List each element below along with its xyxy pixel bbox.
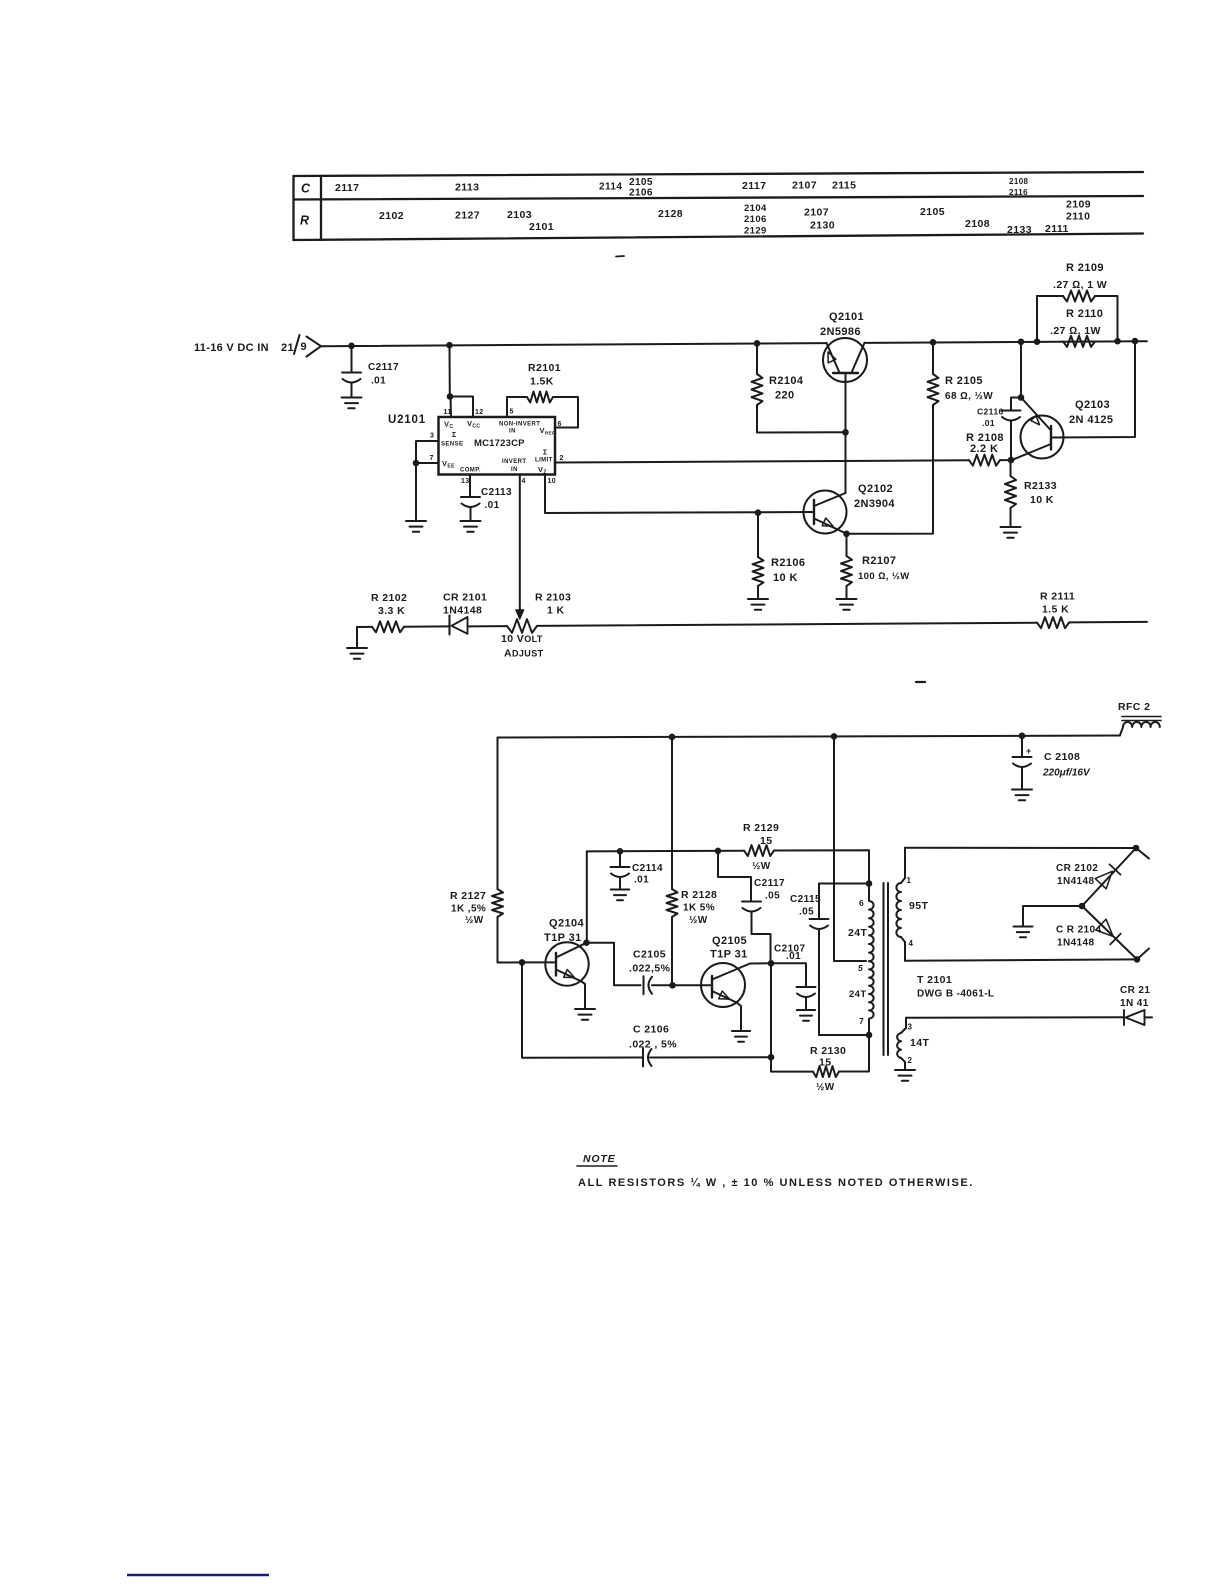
transformer T2101 primary winding upper 24T — [869, 884, 874, 962]
wire R2101 to U2101 pin6 — [553, 397, 578, 428]
svg-text:R 2110: R 2110 — [1066, 308, 1103, 320]
wire rail to R2104 — [756, 343, 758, 374]
resistor R2129 — [744, 845, 774, 856]
transistor Q2103 2N4125 — [1021, 416, 1064, 459]
wire Q2102 emitter to R2107 — [846, 534, 848, 556]
wire rail to Q2103 emitter node — [1020, 342, 1022, 398]
svg-text:C2113: C2113 — [481, 487, 512, 498]
junction input rail at U2101 branch — [446, 342, 453, 349]
svg-text:.01: .01 — [786, 951, 801, 962]
capacitor C2114 — [611, 866, 630, 868]
svg-text:2105: 2105 — [920, 206, 945, 218]
svg-text:95T: 95T — [909, 900, 928, 912]
wire C2115 top stem — [818, 884, 820, 920]
svg-text:½W: ½W — [465, 915, 484, 926]
svg-text:1 K: 1 K — [547, 605, 565, 617]
junction Q2105 collector node — [768, 960, 775, 967]
svg-text:2107: 2107 — [792, 180, 817, 192]
junction rectifier bottom node — [1134, 956, 1141, 963]
wire R2129 to winding node — [774, 850, 869, 883]
svg-text:NON-INVERT: NON-INVERT — [499, 422, 540, 428]
wire U2101 pin11 stub — [450, 397, 453, 418]
svg-text:2107: 2107 — [804, 207, 829, 219]
wire rail to R2105 — [932, 342, 934, 374]
svg-text:Σ: Σ — [452, 432, 457, 439]
svg-text:2113: 2113 — [455, 182, 479, 194]
wire pin1 output line — [905, 847, 1136, 849]
junction input rail at Q2103 emitter branch — [1018, 338, 1025, 345]
svg-text:2106: 2106 — [629, 188, 653, 199]
wire rail to R2109 left — [1036, 296, 1038, 342]
wire winding node bottom line — [819, 1034, 869, 1036]
wire R2103 to R2111 long run — [537, 623, 1037, 626]
ground U2101 pin7 — [406, 520, 426, 522]
svg-text:.27 Ω, 1W: .27 Ω, 1W — [1050, 325, 1101, 337]
resistor R2127 — [492, 889, 503, 917]
capacitor C2105 — [643, 976, 645, 994]
stray mark below table — [616, 255, 624, 258]
junction rectifier center node — [1079, 903, 1086, 910]
junction input rail at Q2103 base branch — [1132, 338, 1139, 345]
resistor R2108 — [969, 455, 1000, 466]
svg-text:C2117: C2117 — [754, 878, 785, 889]
diode CR2102 — [1082, 848, 1136, 906]
junction input rail at R2109 right — [1114, 338, 1121, 345]
svg-text:R 2111: R 2111 — [1040, 591, 1075, 603]
svg-text:7: 7 — [859, 1016, 864, 1026]
junction input rail at R2104 — [754, 340, 761, 347]
svg-text:Q2105: Q2105 — [712, 935, 747, 947]
svg-text:13: 13 — [461, 478, 470, 485]
svg-text:2117: 2117 — [335, 182, 359, 194]
svg-text:RFC 2: RFC 2 — [1118, 701, 1150, 713]
wire Q2105 node riser to bottom — [770, 963, 772, 1057]
resistor R2128 — [667, 889, 678, 917]
resistor R2104 — [752, 374, 763, 405]
wire C2106 to Q2104 base node — [522, 962, 643, 1057]
wire C2115 bottom stem — [818, 929, 820, 1035]
svg-text:ADJUST: ADJUST — [504, 648, 544, 660]
svg-text:1K 5%: 1K 5% — [683, 903, 715, 914]
wire Q2105 emitter to ground — [737, 1003, 742, 1032]
svg-text:.01: .01 — [982, 418, 995, 428]
junction collector line at C2114 — [617, 848, 624, 855]
svg-text:Q2101: Q2101 — [829, 311, 864, 323]
svg-text:.022 , 5%: .022 , 5% — [629, 1039, 677, 1051]
ground Q2104 emitter — [575, 1008, 595, 1010]
svg-text:C2116: C2116 — [977, 407, 1004, 417]
wire R2105 to Q2102 emitter node — [847, 405, 934, 534]
wire C2108 stem — [1021, 735, 1023, 757]
wire node to C2107 — [771, 963, 806, 987]
svg-text:C: C — [301, 182, 311, 196]
svg-text:R: R — [300, 214, 309, 228]
svg-text:LIMIT: LIMIT — [535, 458, 553, 464]
svg-text:R 2129: R 2129 — [743, 822, 779, 834]
resistor R2130 — [813, 1066, 839, 1077]
wire rectifier top stub to edge — [1136, 848, 1149, 859]
svg-text:1.5K: 1.5K — [530, 376, 554, 388]
wire lower rail to R2128 — [671, 737, 673, 889]
wire C2108 to ground — [1021, 767, 1023, 790]
wire lower rail to R2127 — [497, 738, 499, 890]
wire Q2104 base lead — [522, 961, 556, 963]
ground R2106 — [748, 598, 768, 600]
svg-text:C 2106: C 2106 — [633, 1024, 669, 1036]
wire Q2104 emitter to ground — [582, 982, 586, 1010]
transistor Q2104 TIP31 — [545, 942, 588, 985]
svg-text:5: 5 — [510, 409, 514, 416]
ground R2133 — [1001, 526, 1021, 528]
svg-text:MC1723CP: MC1723CP — [474, 438, 525, 449]
svg-text:T1P 31: T1P 31 — [710, 949, 748, 961]
wire CR2101 to R2103 — [469, 625, 507, 627]
ground R2107 — [837, 598, 857, 600]
junction input rail at R2105 — [930, 339, 937, 346]
svg-text:C 2108: C 2108 — [1044, 751, 1080, 763]
ground C2117 — [342, 397, 362, 399]
wire U2101 pin10 to Q2102 base — [545, 475, 814, 514]
svg-text:2N5986: 2N5986 — [820, 326, 861, 338]
svg-text:4: 4 — [522, 478, 526, 485]
ground C2108 — [1012, 789, 1032, 791]
wire U2101 pin2 to R2108 — [555, 460, 969, 462]
ground Q2105 emitter — [732, 1030, 750, 1032]
svg-text:1N4148: 1N4148 — [443, 605, 482, 617]
wire ground to R2102 — [356, 627, 358, 648]
svg-text:1N4148: 1N4148 — [1057, 938, 1094, 949]
svg-text:CR 2102: CR 2102 — [1056, 863, 1098, 874]
wire C2116 to current-limit node — [1010, 421, 1012, 461]
svg-text:2111: 2111 — [1045, 223, 1069, 235]
svg-text:R2104: R2104 — [769, 375, 804, 387]
wire R2130 to winding pin7 node — [839, 1035, 869, 1072]
wire C2114 stem — [619, 851, 621, 867]
svg-text:R2133: R2133 — [1024, 480, 1057, 492]
wire C2114 to ground — [619, 877, 621, 890]
wire R2108 to current-limit node — [1000, 459, 1011, 461]
svg-text:CR 2101: CR 2101 — [443, 592, 487, 604]
wire pin4 output line — [905, 959, 1137, 960]
svg-text:C2114: C2114 — [632, 863, 663, 874]
wire lower supply rail — [498, 736, 1121, 738]
svg-text:R 2130: R 2130 — [810, 1045, 846, 1057]
wire R2104 to Q2101 base node — [757, 405, 846, 433]
junction lower rail at R2128 — [669, 734, 676, 741]
svg-text:14T: 14T — [910, 1037, 929, 1049]
wire Q2104 collector to C2105 — [587, 943, 641, 986]
transformer T2101 primary winding lower 24T — [869, 961, 874, 1035]
svg-text:R2107: R2107 — [862, 555, 896, 567]
capacitor C2107 — [797, 986, 816, 988]
resistor R2106 — [753, 557, 764, 586]
op-amp U2101 MC1723CP body — [439, 417, 556, 475]
svg-text:2108: 2108 — [965, 218, 990, 230]
resistor R2110 — [1063, 336, 1095, 347]
wire R2109 right to rail — [1095, 296, 1118, 341]
svg-text:½W: ½W — [689, 915, 708, 926]
wire Q2101 base stem — [845, 373, 847, 493]
svg-text:R 2127: R 2127 — [450, 890, 486, 902]
wire U2101 pin3 stub — [416, 441, 439, 463]
svg-text:2114: 2114 — [599, 182, 622, 193]
ground C2107 — [797, 1009, 815, 1011]
junction Q2104 collector node — [583, 939, 590, 946]
wire Q2104 collector line — [587, 850, 744, 853]
junction Q2102 emitter node — [843, 531, 850, 538]
svg-text:7: 7 — [430, 455, 434, 462]
svg-text:1N4148: 1N4148 — [1057, 876, 1094, 887]
svg-text:12: 12 — [475, 409, 484, 416]
svg-text:10: 10 — [548, 478, 557, 485]
resistor R2107 — [841, 556, 852, 586]
svg-text:2103: 2103 — [507, 209, 532, 221]
wire rectifier bottom stub to edge — [1137, 949, 1149, 960]
svg-text:2: 2 — [560, 455, 564, 462]
resistor R2101 — [527, 392, 553, 403]
resistor R2102 — [372, 621, 404, 632]
svg-text:2117: 2117 — [742, 180, 766, 192]
svg-text:DWG B -4061-L: DWG B -4061-L — [917, 989, 994, 1000]
wire rail to U2101 pins 11/12 — [449, 345, 451, 396]
resistor R2105 — [928, 374, 939, 405]
wire U2101 pin4 to R2103 wiper — [519, 475, 521, 614]
wire U2101 pin12 loop — [450, 397, 473, 418]
capacitor C2115 — [810, 918, 829, 920]
capacitor C2108 — [1013, 756, 1032, 758]
wire U2101 pin5 to R2101 — [507, 397, 527, 417]
wire C2117 stem — [351, 346, 353, 373]
svg-text:R 2105: R 2105 — [945, 375, 983, 387]
ground C2113 — [461, 520, 481, 522]
svg-text:C2105: C2105 — [633, 949, 666, 961]
decorative blue underline — [127, 1574, 269, 1577]
capacitor C2116 — [1002, 410, 1021, 412]
svg-text:.27 Ω, 1 W: .27 Ω, 1 W — [1053, 279, 1107, 291]
wire R2106 to ground — [757, 586, 759, 599]
junction U2101 pin11/12 node — [447, 393, 454, 400]
junction winding pin6 node — [866, 880, 873, 887]
svg-text:.05: .05 — [765, 891, 780, 902]
svg-text:2105: 2105 — [629, 177, 653, 188]
resistor R2133 — [1005, 476, 1016, 508]
wire U2101 pin7 stub — [416, 462, 439, 464]
svg-text:24T: 24T — [849, 989, 867, 1000]
R2103 wiper arrowhead — [516, 610, 524, 619]
svg-text:Q2104: Q2104 — [549, 918, 585, 930]
transistor Q2105 TIP31 — [701, 963, 745, 1007]
wire main input rail left segment — [321, 343, 826, 346]
svg-text:4: 4 — [909, 939, 914, 948]
svg-text:Σ: Σ — [543, 450, 548, 457]
wire main input rail right segment — [866, 341, 1148, 343]
wire table bottom border — [294, 234, 1144, 241]
svg-text:10 K: 10 K — [1030, 494, 1054, 506]
inductor RFC2 — [1120, 727, 1123, 735]
svg-text:2128: 2128 — [658, 208, 683, 220]
wire R2102 to CR2101 — [404, 625, 449, 627]
wire table label-column divider — [320, 176, 322, 240]
resistor R2109 — [1063, 291, 1095, 302]
svg-text:R 2128: R 2128 — [681, 889, 717, 901]
wire R2127 to Q2104 base node — [498, 917, 523, 963]
wire R2106 stem — [757, 513, 759, 557]
wire bottom feedback to C2106 — [650, 1056, 771, 1058]
junction collector line at C2117 branch — [715, 848, 722, 855]
junction rectifier top node — [1133, 845, 1140, 852]
svg-text:R 2109: R 2109 — [1066, 262, 1104, 274]
junction pin10 wire at R2106 — [755, 509, 762, 516]
junction lower rail at transformer center tap — [831, 733, 838, 740]
svg-text:2101: 2101 — [529, 221, 554, 233]
wire U2101 pin13 stem — [469, 475, 471, 498]
svg-text:R2101: R2101 — [528, 362, 561, 374]
svg-text:2109: 2109 — [1066, 199, 1091, 211]
svg-text:T1P 31: T1P 31 — [544, 932, 582, 944]
svg-text:2130: 2130 — [810, 220, 835, 232]
wire pin3 to CR2103 — [906, 1016, 1124, 1019]
wire R2128 to C2105 node — [671, 917, 673, 985]
svg-text:9: 9 — [301, 341, 308, 353]
wire pin1 stub — [901, 848, 905, 883]
svg-text:15: 15 — [819, 1057, 831, 1069]
svg-text:15: 15 — [760, 835, 772, 847]
wire winding node top line — [819, 883, 869, 885]
svg-text:.01: .01 — [485, 500, 500, 511]
svg-text:ALL RESISTORS ¼ W , ± 10 %: ALL RESISTORS ¼ W , ± 10 % UNLESS NOTED … — [578, 1177, 974, 1189]
svg-text:.01: .01 — [371, 376, 386, 387]
wire rectifier center to ground — [1023, 906, 1082, 926]
wire pin4 stub — [901, 937, 905, 961]
transformer T2101 secondary 95T — [896, 883, 901, 937]
resistor R2111 — [1037, 617, 1069, 628]
ground rectifier center — [1014, 926, 1033, 928]
svg-text:1K ,5%: 1K ,5% — [451, 904, 486, 915]
junction lower rail at C2108 — [1019, 733, 1026, 740]
svg-text:R 2102: R 2102 — [371, 592, 407, 604]
wire C2117 branch upper — [718, 851, 751, 901]
wire C2105 to node — [652, 984, 673, 986]
capacitor C2117 coupling — [742, 901, 761, 903]
diode CR2103 — [1123, 1010, 1125, 1025]
ground C2114 — [611, 889, 629, 891]
wire emitter node to C2116 — [1011, 398, 1021, 411]
svg-text:C R 2104: C R 2104 — [1056, 925, 1101, 936]
junction input rail at C2117 — [348, 343, 355, 350]
wire center tap from lower rail — [834, 736, 866, 961]
capacitor C2117 — [342, 372, 361, 374]
svg-text:U2101: U2101 — [388, 414, 426, 426]
wire C2107 to ground — [805, 997, 807, 1010]
svg-text:3: 3 — [908, 1023, 913, 1032]
svg-text:Q2103: Q2103 — [1075, 399, 1110, 411]
wire table middle divider — [294, 196, 1144, 200]
svg-text:2129: 2129 — [744, 226, 767, 237]
svg-text:68 Ω, ½W: 68 Ω, ½W — [945, 391, 993, 402]
svg-text:Q2102: Q2102 — [858, 483, 893, 495]
svg-text:T 2101: T 2101 — [917, 974, 952, 986]
ground R2102 — [347, 647, 367, 649]
svg-text:C2115: C2115 — [790, 894, 821, 905]
wire current-limit node to R2133 — [1010, 460, 1012, 476]
svg-text:11: 11 — [444, 409, 452, 416]
svg-text:.01: .01 — [634, 875, 649, 886]
svg-text:½W: ½W — [752, 861, 771, 872]
svg-text:NOTE: NOTE — [583, 1153, 616, 1165]
wire table left border — [292, 176, 294, 240]
svg-text:R 2103: R 2103 — [535, 592, 571, 604]
svg-text:2: 2 — [908, 1056, 913, 1065]
svg-text:+: + — [1026, 746, 1031, 756]
wire pin7 node to ground — [415, 463, 417, 521]
capacitor C2113 — [461, 496, 480, 498]
wire Q2105 collector to node — [750, 962, 771, 964]
junction input rail at R2109 left — [1034, 338, 1041, 345]
transformer T2101 secondary 14T — [897, 1033, 901, 1058]
svg-text:2133: 2133 — [1007, 224, 1032, 236]
junction bottom feedback at Q2105 branch — [768, 1054, 775, 1061]
svg-text:2.2 K: 2.2 K — [970, 443, 998, 455]
svg-text:2116: 2116 — [1009, 188, 1028, 197]
junction Q2104 base node — [519, 959, 526, 966]
svg-text:2127: 2127 — [455, 210, 480, 222]
svg-text:1: 1 — [907, 876, 912, 885]
wire Q2105 branch to R2130 — [771, 1057, 813, 1071]
svg-text:1.5 K: 1.5 K — [1042, 604, 1069, 616]
svg-text:SENSE: SENSE — [441, 442, 463, 448]
junction current-limit node — [1008, 457, 1015, 464]
svg-text:2N3904: 2N3904 — [854, 498, 895, 510]
transformer T2101 core — [883, 883, 885, 1055]
svg-text:24T: 24T — [848, 927, 867, 939]
junction Q2103 emitter node — [1018, 394, 1025, 401]
svg-text:R2106: R2106 — [771, 557, 805, 569]
svg-text:2106: 2106 — [744, 214, 767, 225]
transistor Q2102 2N3904 — [804, 491, 847, 534]
transistor Q2101 2N5986 — [823, 338, 867, 382]
junction Q2101 base node — [842, 429, 849, 436]
wire C2117 to ground — [351, 383, 353, 398]
svg-text:11-16 V DC IN: 11-16 V DC IN — [194, 342, 269, 354]
input connector chevron — [307, 337, 322, 357]
svg-text:.022,5%: .022,5% — [629, 963, 671, 975]
svg-text:1N 41: 1N 41 — [1120, 998, 1149, 1009]
wire R2111 to right edge — [1069, 621, 1147, 624]
svg-text:3: 3 — [430, 433, 434, 440]
junction U2101 pin7 node — [413, 460, 420, 467]
svg-text:10 VOLT: 10 VOLT — [501, 633, 543, 645]
svg-text:21: 21 — [281, 342, 294, 354]
svg-text:220: 220 — [775, 390, 795, 402]
svg-text:220μf/16V: 220μf/16V — [1042, 768, 1091, 779]
svg-text:10 K: 10 K — [773, 572, 798, 584]
svg-text:2108: 2108 — [1009, 177, 1029, 186]
capacitor C2106 — [642, 1049, 644, 1067]
junction winding pin7 node — [866, 1032, 873, 1039]
svg-text:2N 4125: 2N 4125 — [1069, 414, 1113, 426]
svg-text:IN: IN — [511, 467, 518, 473]
svg-text:2102: 2102 — [379, 210, 404, 222]
junction C2105 output node — [669, 982, 676, 989]
svg-text:COMP.: COMP. — [460, 468, 481, 474]
wire R2107 to ground — [846, 586, 848, 599]
diode CR2101 — [448, 616, 450, 635]
svg-text:5: 5 — [858, 963, 863, 973]
svg-text:2115: 2115 — [832, 180, 856, 192]
wire pin2 stub — [901, 1058, 905, 1069]
wire C2117 branch lower — [752, 912, 771, 964]
wire Q2104 collector riser — [586, 851, 588, 942]
